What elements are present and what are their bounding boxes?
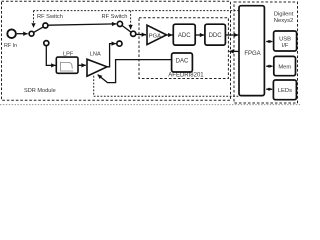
svg-text:FPGA: FPGA (244, 51, 260, 57)
svg-text:PGA: PGA (149, 33, 161, 39)
svg-text:SDR Module: SDR Module (24, 88, 56, 94)
double arrow FPGA-Mem (266, 65, 272, 67)
PGA amplifier triangle (147, 25, 167, 44)
DAC box (172, 53, 193, 72)
svg-text:ADC: ADC (178, 33, 191, 39)
LPF box (56, 57, 78, 73)
arrow DDC to FPGA (226, 34, 239, 36)
switch S1 pole (29, 31, 34, 36)
DDC box (205, 24, 226, 45)
RF In connector (7, 29, 16, 38)
arrow PGA to ADC (167, 34, 173, 36)
control drop arrow to switch S2 (130, 11, 132, 30)
svg-text:RF Switch: RF Switch (102, 14, 128, 20)
LPF response icon (61, 62, 74, 71)
svg-text:RF Switch: RF Switch (37, 14, 63, 20)
Mem box (274, 56, 296, 75)
svg-text:LEDs: LEDs (278, 88, 292, 94)
switch S1 lever (34, 27, 43, 32)
svg-text:I/F: I/F (282, 43, 289, 49)
control dashed line FPGA to RF switches (34, 10, 240, 12)
wire RF In to S1 pole (17, 33, 28, 35)
arrow LPF to LNA (78, 64, 85, 66)
svg-text:LPF: LPF (63, 52, 74, 58)
Digilent Nexys2 dashed box (234, 2, 298, 103)
USB I/F box (274, 31, 297, 51)
svg-text:Mem: Mem (278, 64, 291, 70)
control dashed line FPGA to LNA (94, 76, 239, 96)
wire S1 top throw to S2 top throw (48, 24, 116, 25)
wire LNA output to S2 bottom throw (107, 44, 116, 67)
control drop arrow to switch S1 (33, 11, 35, 28)
switch S2 bottom throw (117, 41, 122, 46)
svg-text:USB: USB (279, 36, 291, 42)
LNA amplifier triangle (87, 59, 107, 76)
FPGA box (239, 6, 264, 96)
SDR Module dashed box (2, 1, 231, 100)
switch S2 top throw (117, 21, 122, 26)
svg-text:DDC: DDC (209, 33, 223, 39)
svg-text:Nexys2: Nexys2 (274, 18, 294, 24)
switch S2 lever (122, 26, 131, 33)
switch S1 top throw (43, 23, 48, 28)
AFEDRI8201 dashed box (139, 18, 228, 79)
svg-text:Digilent: Digilent (274, 11, 294, 17)
wire S1 bottom throw to LPF (46, 46, 55, 66)
page edge dotted line (0, 104, 300, 106)
svg-text:DAC: DAC (176, 59, 189, 65)
arrow FPGA to AFEDRI control (229, 50, 239, 52)
switch S2 pole (131, 31, 136, 36)
double arrow FPGA-USB (266, 41, 272, 43)
wire S2 pole to PGA (136, 33, 146, 36)
LEDs box (273, 80, 296, 100)
arrow ADC to DDC (195, 34, 204, 36)
double arrow FPGA-LEDs (266, 88, 272, 90)
ADC box (173, 24, 195, 45)
switch S1 bottom throw (44, 41, 49, 46)
wire DAC to LNA gain arrow (98, 60, 172, 83)
svg-text:LNA: LNA (90, 52, 101, 58)
svg-text:RF In: RF In (4, 43, 17, 49)
svg-text:AFEDRI8201: AFEDRI8201 (168, 73, 204, 79)
